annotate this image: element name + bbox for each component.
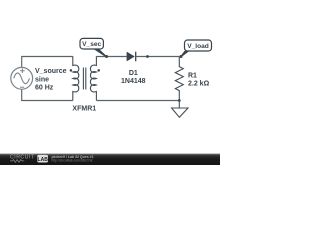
transformer primary polarity dot bbox=[70, 69, 73, 72]
transformer secondary polarity dot bbox=[97, 69, 100, 72]
voltage source V_source circle bbox=[11, 67, 33, 89]
svg-text:http://circuitlab.com/c6k27af: http://circuitlab.com/c6k27af bbox=[52, 159, 93, 163]
svg-text:1N4148: 1N4148 bbox=[121, 78, 146, 85]
diode D1 anode triangle bbox=[127, 52, 135, 62]
node dot V_sec bbox=[105, 55, 108, 58]
svg-text:V_source: V_source bbox=[35, 68, 67, 75]
node flag V_sec box bbox=[80, 38, 103, 49]
svg-text:V_sec: V_sec bbox=[82, 41, 101, 48]
svg-text:60 Hz: 60 Hz bbox=[35, 85, 54, 92]
node flag V_sec pointer bbox=[93, 49, 107, 58]
voltage source minus sign bbox=[20, 86, 24, 88]
transformer XFMR1 secondary winding bbox=[90, 56, 96, 100]
wire diode to resistor bbox=[136, 56, 180, 58]
wire bottom-left loop bbox=[22, 89, 73, 100]
svg-text:XFMR1: XFMR1 bbox=[72, 105, 96, 112]
svg-text:D1: D1 bbox=[129, 70, 138, 77]
junction dot at ground node bbox=[178, 99, 181, 102]
diode D1 cathode bar bbox=[135, 52, 137, 62]
resistor R1 bbox=[175, 57, 183, 101]
ground stub bbox=[178, 101, 180, 109]
svg-text:2.2 kΩ: 2.2 kΩ bbox=[188, 81, 210, 88]
transformer XFMR1 primary winding bbox=[73, 56, 79, 100]
svg-text:LAB: LAB bbox=[38, 157, 49, 163]
junction dot after diode bbox=[146, 55, 149, 58]
svg-text:R1: R1 bbox=[188, 73, 197, 80]
ground symbol bbox=[172, 108, 188, 117]
footer logo resistor zigzag bbox=[10, 160, 24, 163]
wire secondary top to diode bbox=[96, 56, 126, 58]
wire top-left loop bbox=[22, 57, 73, 68]
node flag V_load pointer bbox=[181, 51, 190, 57]
svg-text:sine: sine bbox=[35, 77, 49, 84]
voltage source sine wave bbox=[14, 73, 30, 84]
svg-text:V_load: V_load bbox=[187, 43, 209, 50]
wire bottom secondary bbox=[96, 100, 179, 102]
node flag V_load box bbox=[185, 40, 212, 51]
node dot V_load bbox=[180, 55, 183, 58]
voltage source plus sign bbox=[20, 69, 25, 74]
footer logo LAB badge bbox=[37, 155, 48, 163]
transformer core bbox=[83, 68, 85, 90]
